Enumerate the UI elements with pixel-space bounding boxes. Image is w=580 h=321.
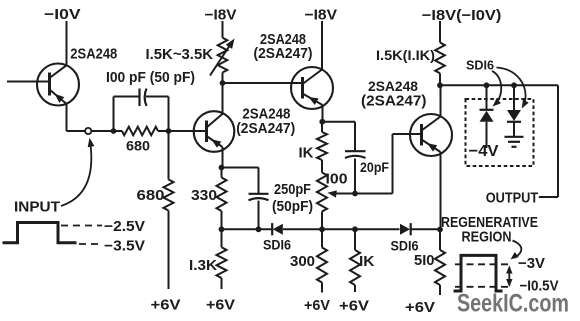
svg-text:−2.5V: −2.5V <box>104 218 145 235</box>
svg-text:−I0V: −I0V <box>44 6 81 23</box>
diode D1 SD16 (pointing left) <box>263 223 291 252</box>
junction dot (250pF tap) <box>256 226 262 232</box>
resistor 1.3K <box>189 229 227 289</box>
junction dot (node B, Q2 base) <box>166 128 172 134</box>
svg-text:IK: IK <box>299 145 314 162</box>
junction dot (330/1.3K node) <box>219 226 225 232</box>
svg-text:OUTPUT: OUTPUT <box>486 189 539 206</box>
curved arrow from INPUT to input node <box>61 138 94 206</box>
dashed line -10.5V <box>455 286 512 288</box>
svg-text:I.5K~3.5K: I.5K~3.5K <box>146 46 214 63</box>
junction dot (510/Q4 emitter node) <box>437 227 443 233</box>
svg-text:−I8V(−I0V): −I8V(−I0V) <box>422 7 502 24</box>
svg-text:I00: I00 <box>326 171 348 188</box>
dashed line to -3.5V <box>79 243 102 245</box>
resistor 1K (Q3 emitter) <box>299 122 328 162</box>
input waveform pulse <box>3 223 77 243</box>
bus wire (bottom, y=229) <box>222 228 441 230</box>
svg-text:SeekIC.com: SeekIC.com <box>457 290 569 318</box>
svg-text:(2SA247): (2SA247) <box>236 121 295 137</box>
transistor Q1 2SA248 (PNP) <box>7 64 79 132</box>
power rail -18V #1 label <box>205 7 237 38</box>
junction dot (diode D3 tap) <box>484 82 490 88</box>
transistor Q4 2SA248 (PNP) <box>393 85 453 229</box>
wire to 20pF branch <box>322 121 355 123</box>
resistor 510 <box>414 230 445 296</box>
svg-text:I.5K(I.IK): I.5K(I.IK) <box>376 47 435 63</box>
dashed line to -2.5V <box>61 225 102 227</box>
transistor Q3 2SA248 (PNP) <box>223 67 334 122</box>
power rail -18V #2 label <box>305 7 338 70</box>
svg-text:INPUT: INPUT <box>14 199 60 216</box>
svg-text:+6V: +6V <box>405 299 435 316</box>
power rail -10V label <box>44 6 81 65</box>
wire <box>92 130 123 132</box>
dashed box (clamp network) <box>466 99 534 166</box>
ground symbol <box>505 137 524 147</box>
power rail -18V(-10V) label <box>422 7 502 43</box>
svg-text:250pF: 250pF <box>274 181 311 198</box>
svg-text:−3V: −3V <box>518 255 545 272</box>
wire to Q3 base <box>223 82 303 84</box>
svg-text:680: 680 <box>126 138 150 154</box>
wire to Q4 base <box>355 134 393 194</box>
svg-text:680: 680 <box>137 187 165 204</box>
resistor 1.5K(1.1K) <box>376 43 445 86</box>
curved arrow from REGION to waveform <box>511 241 522 260</box>
wire: input line from Q1 emitter <box>67 130 86 132</box>
junction dot (diode D4 tap) <box>511 82 517 88</box>
svg-text:−I8V: −I8V <box>305 7 338 24</box>
svg-text:330: 330 <box>191 187 217 204</box>
junction dot (Q2 emitter / 330 node) <box>219 165 225 171</box>
resistor 1K (bus) <box>350 229 375 292</box>
junction dot (wiper/20pF node) <box>352 191 358 197</box>
svg-text:+6V: +6V <box>206 297 235 314</box>
svg-text:2SA248: 2SA248 <box>70 46 117 63</box>
svg-text:300: 300 <box>290 253 315 270</box>
svg-text:(2SA247): (2SA247) <box>254 46 313 62</box>
wire <box>158 130 169 132</box>
junction dot (Q3 emitter node) <box>319 119 325 125</box>
capacitor 250pF(50pF) <box>249 181 314 229</box>
label Q2 2SA248 (2SA247) <box>236 106 295 137</box>
capacitor C1 100pF(50pF) parallel branch <box>106 69 195 131</box>
svg-text:5I0: 5I0 <box>414 252 435 269</box>
potentiometer 100 <box>317 160 355 229</box>
input node (open circle) <box>85 128 91 134</box>
curved arrow to left clamp diode <box>492 71 501 107</box>
dashed line -3V <box>455 263 512 265</box>
diode D4 (to ground, cathode down) <box>507 85 521 136</box>
svg-text:+6V: +6V <box>151 297 181 314</box>
svg-text:−3.5V: −3.5V <box>104 238 145 255</box>
svg-text:(2SA247): (2SA247) <box>361 94 427 110</box>
output waveform pulse <box>454 255 503 291</box>
variable resistor 1.5K~3.5K <box>146 38 235 83</box>
resistor 300 <box>290 229 327 292</box>
svg-text:−I8V: −I8V <box>205 7 237 24</box>
diode D3 (to -4V, cathode up) <box>480 85 494 148</box>
svg-text:I.3K: I.3K <box>189 257 217 274</box>
junction dot (node A, left of R 680) <box>111 128 117 134</box>
svg-text:IK: IK <box>359 253 375 270</box>
svg-text:2SA248: 2SA248 <box>368 78 418 94</box>
svg-text:(50pF): (50pF) <box>272 198 313 215</box>
junction dot (Q4 collector node) <box>437 82 443 88</box>
double arrow (regenerative span) <box>506 266 512 288</box>
transistor Q2 2SA248 (PNP) <box>169 83 235 168</box>
svg-text:−4V: −4V <box>469 143 499 160</box>
wire: top-right rail to output <box>440 85 558 197</box>
label Q4 2SA248 (2SA247) <box>361 78 427 110</box>
REGENERATIVE REGION label <box>441 214 538 246</box>
svg-text:20pF: 20pF <box>360 159 389 175</box>
svg-text:+6V: +6V <box>304 297 330 314</box>
svg-text:REGION: REGION <box>462 229 512 246</box>
diode D2 SD16 (pointing right) <box>391 223 419 253</box>
resistor 330 <box>191 168 227 230</box>
capacitor 20pF <box>345 122 389 194</box>
svg-text:I00 pF (50 pF): I00 pF (50 pF) <box>106 69 195 86</box>
resistor 680 (horizontal, input) <box>122 127 158 154</box>
svg-text:+6V: +6V <box>339 298 369 315</box>
svg-text:SDI6: SDI6 <box>466 58 494 72</box>
wire to 250pF <box>222 168 259 194</box>
svg-text:SDI6: SDI6 <box>263 237 291 253</box>
resistor 680 (vertical, to +6V) <box>137 131 174 289</box>
junction dot (1K tap) <box>352 226 358 232</box>
label Q3 2SA248 (2SA247) <box>254 32 313 62</box>
curved arrow to right clamp diode <box>497 68 529 109</box>
junction dot (100/300 node) <box>319 226 325 232</box>
junction dot (Q2 collector / Q3 base node) <box>220 80 226 86</box>
